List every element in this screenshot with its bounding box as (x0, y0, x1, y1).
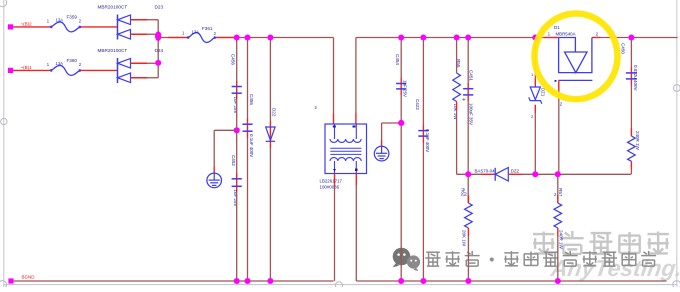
wire bot-right pin lower (355, 185, 357, 281)
wire branch C455 upper (247, 38, 249, 119)
wire stub R58 top (630, 128, 632, 136)
svg-text:1uF 25V: 1uF 25V (403, 80, 408, 97)
wire +bus D1 to right edge (600, 37, 678, 39)
zener diode DZ1 (530, 87, 540, 100)
junction on +bus (628, 35, 634, 41)
wire branch C451 upper (467, 38, 469, 84)
diode D1 (highlighted) (559, 38, 592, 73)
wire net to snubber corner (522, 173, 631, 175)
port BGND (8, 278, 13, 283)
wire bot-left pin lower (334, 185, 336, 281)
yellow highlight annotation circle (535, 14, 618, 100)
wire D1 tab stub (558, 80, 560, 98)
port ~(B)2 (8, 24, 13, 29)
svg-text:+: + (462, 97, 466, 104)
svg-text:240R 1W: 240R 1W (635, 131, 640, 151)
wire F359 to D23 (81, 26, 118, 28)
wire stub C450 (630, 67, 632, 85)
watermark big gray CJK: 嘉峪检测网 (533, 232, 554, 255)
fuse F361 (187, 33, 216, 43)
wire stub C454 (400, 78, 402, 95)
wire stub C455 (247, 118, 249, 138)
svg-text:R57: R57 (558, 188, 563, 197)
svg-text:F359: F359 (67, 14, 78, 19)
wire net down to R57 (557, 174, 559, 203)
wire branch C454 upper (400, 38, 402, 79)
svg-text:0.1uF 400V: 0.1uF 400V (425, 129, 430, 152)
svg-text:13A: 13A (56, 18, 64, 23)
wire D23 top out (147, 19, 158, 21)
svg-text:13A: 13A (192, 29, 200, 34)
svg-text:240R 1W: 240R 1W (559, 230, 564, 250)
wire -bus right segment (356, 280, 666, 282)
wire red stub D1 pin1 (544, 37, 559, 39)
wire bot-right pin stub (355, 174, 357, 186)
wire ground2 to branch (382, 122, 402, 124)
wire D23 bot out (147, 33, 158, 35)
wire net down to R62 (467, 174, 469, 203)
wire C452 to -bus (236, 192, 238, 281)
wire stub C451 (467, 83, 469, 101)
port ~(B)1 (8, 68, 13, 73)
wire port to F360 (13, 69, 50, 71)
svg-text:~(B)1: ~(B)1 (21, 65, 33, 70)
svg-text:C456: C456 (231, 54, 236, 65)
junction on -bus (420, 278, 426, 284)
wire stub DZ1 top (534, 79, 536, 87)
wire C422 to -bus (422, 143, 424, 281)
wire stub R62 top (467, 195, 469, 203)
capacitor C454 (396, 83, 406, 85)
wire D1 tab down to net (558, 98, 560, 174)
junction on -bus (398, 278, 404, 284)
wire down to ground 1 (213, 130, 215, 167)
diode D22 (266, 127, 275, 140)
svg-text:0.022u 400V: 0.022u 400V (633, 65, 638, 91)
junction branch1 ground tap (234, 127, 240, 133)
junction on mid net (532, 171, 538, 177)
dual schottky diode D24 (117, 58, 119, 83)
wire ground2 up (381, 123, 383, 140)
svg-text:LB2261717: LB2261717 (320, 179, 343, 184)
wire D22 to -bus (269, 148, 271, 281)
wire stub ground 1 (213, 167, 215, 173)
junction diode outputs to +bus (155, 31, 161, 41)
wire red stub F361 left (168, 37, 187, 39)
dual schottky diode D23 (117, 15, 119, 40)
svg-text:BGND: BGND (22, 274, 36, 279)
wire branch C456 upper (236, 38, 238, 82)
junction on -bus (245, 278, 251, 284)
fuse F359 (50, 22, 81, 32)
wire +bus to F361 (158, 37, 168, 39)
wire stub R62 bottom (467, 228, 469, 236)
svg-text:D23: D23 (155, 5, 164, 10)
resistor R55 (453, 73, 461, 102)
junction ground2 tap (398, 120, 404, 126)
wire D24 bot out (147, 77, 158, 79)
wire to ground 1 (214, 129, 237, 131)
junction on -bus (234, 278, 240, 284)
junction on +bus (245, 35, 251, 41)
resistor R57 (554, 203, 562, 228)
wire R55 down to net (456, 110, 458, 174)
wire R58 to net corner (630, 169, 632, 174)
wire branch DZ1 upper (534, 38, 536, 80)
svg-text:F361: F361 (202, 26, 213, 31)
wire +bus F361 to L1 (235, 37, 334, 39)
wire D23 bot out red (131, 33, 148, 35)
wire stub R57 bottom (557, 228, 559, 236)
svg-text:C451: C451 (469, 70, 474, 81)
wire -bus left segment (14, 280, 334, 282)
wire stub R58 bottom (630, 161, 632, 169)
wire net from R55 (457, 173, 481, 175)
svg-text:20K 1W: 20K 1W (461, 230, 466, 247)
junction on +bus (398, 35, 404, 41)
wire stub ground 2 (381, 140, 383, 146)
svg-text:C422: C422 (415, 99, 420, 110)
D1 case tab line (558, 79, 592, 81)
diode DZ2 BAS70-04 (494, 168, 496, 181)
wire branch D22 upper (269, 38, 271, 122)
svg-text:13A: 13A (56, 61, 64, 66)
svg-text:C455: C455 (249, 94, 254, 105)
wire DZ1 down to net (534, 113, 536, 174)
junction on +bus (532, 35, 538, 41)
junction on +bus (465, 35, 471, 41)
wire bot-left pin stub (334, 174, 336, 186)
svg-text:MBR20100CT: MBR20100CT (98, 5, 128, 10)
wire vertical diode-output bus (157, 20, 159, 78)
wire R57 to -bus (557, 236, 559, 281)
winding top (330, 139, 361, 142)
winding bottom (330, 158, 361, 161)
wire R62 to -bus (467, 236, 469, 281)
capacitor C422 (418, 130, 428, 132)
wire stub DZ2 right (508, 173, 522, 175)
svg-text:~(B)2: ~(B)2 (21, 22, 33, 27)
junction on +bus (420, 35, 426, 41)
svg-text:DZ2: DZ2 (511, 168, 520, 173)
svg-text:D22: D22 (272, 108, 277, 117)
wire branch R55 upper (456, 38, 458, 74)
wire C454 to -bus (400, 95, 402, 281)
wire branch C450 upper (630, 38, 632, 68)
resistor R58 (628, 136, 636, 161)
wire stub C422 (422, 125, 424, 143)
wire D24 top out red (131, 62, 148, 64)
wire D24 bot out red (131, 77, 148, 79)
wire C451 down to net (467, 101, 469, 174)
wire red stub D1 pin2 (592, 37, 600, 39)
wire stub DZ2 left (481, 173, 495, 175)
wire top-right pin stub (355, 113, 357, 124)
svg-text:BAS70-04: BAS70-04 (475, 168, 496, 173)
wire D24 top out (147, 62, 158, 64)
wire +bus L1 to D1 (356, 37, 544, 39)
wire stub D22 (269, 121, 271, 148)
svg-text:F360: F360 (67, 58, 78, 63)
junction on -bus (267, 278, 273, 284)
wire stub DZ1 bottom (534, 105, 536, 113)
svg-text:R55: R55 (456, 59, 461, 68)
capacitor C450 (626, 72, 637, 74)
wire D23 top out red (131, 19, 148, 21)
sheet border (3, 0, 5, 287)
svg-text:C450: C450 (621, 43, 626, 54)
junction D24 outputs (155, 60, 161, 66)
wire top-left pin stub (333, 113, 335, 124)
svg-text:D24: D24 (155, 48, 164, 53)
capacitor C456 (232, 86, 242, 88)
wire top-right pin upper (355, 38, 357, 114)
ground earth symbol 1 (207, 173, 222, 188)
svg-text:R62: R62 (461, 188, 466, 197)
junction on mid net (555, 171, 561, 177)
wire port to F359 (13, 26, 50, 28)
svg-text:0.1uF 400V: 0.1uF 400V (249, 134, 254, 157)
wire stub C452 (236, 173, 238, 192)
ground earth symbol 2 (374, 146, 389, 161)
svg-text:10K 1W: 10K 1W (453, 104, 458, 121)
wire stub R57 top (557, 195, 559, 203)
wire C455 to -bus (247, 138, 249, 281)
junction on +bus (267, 35, 273, 41)
svg-text:100#0036: 100#0036 (320, 185, 340, 190)
fuse F360 (50, 65, 81, 75)
wechat icon (speech bubbles) (393, 248, 411, 266)
junction on -bus (555, 278, 561, 284)
capacitor C451 polarized (463, 88, 473, 90)
wire F360 to D24 (81, 69, 118, 71)
wire red stub F361 right (216, 37, 235, 39)
watermark text 公众号·易瑞来可靠性工程 (425, 252, 440, 266)
svg-text:MBR20100CT: MBR20100CT (98, 48, 128, 53)
wire top-left pin upper (333, 38, 335, 114)
svg-text:MBR540A: MBR540A (556, 31, 576, 36)
capacitor C455 (242, 123, 252, 125)
svg-text:C454: C454 (395, 54, 400, 65)
junction on -bus (465, 278, 471, 284)
junction on +bus (454, 35, 460, 41)
wire stub R55 bottom (456, 102, 458, 111)
junction on +bus (234, 35, 240, 41)
junction on mid net (465, 171, 471, 177)
wire C450 to R58 (630, 85, 632, 128)
svg-text:C452: C452 (231, 155, 236, 166)
wire stub C456 (236, 81, 238, 99)
resistor R62 (465, 203, 473, 228)
svg-text:100uF 35V: 100uF 35V (469, 103, 474, 125)
capacitor C452 (232, 178, 242, 180)
wire C456 to C452 (236, 99, 238, 173)
wire branch C422 upper (422, 38, 424, 126)
svg-text:D1: D1 (554, 25, 560, 30)
